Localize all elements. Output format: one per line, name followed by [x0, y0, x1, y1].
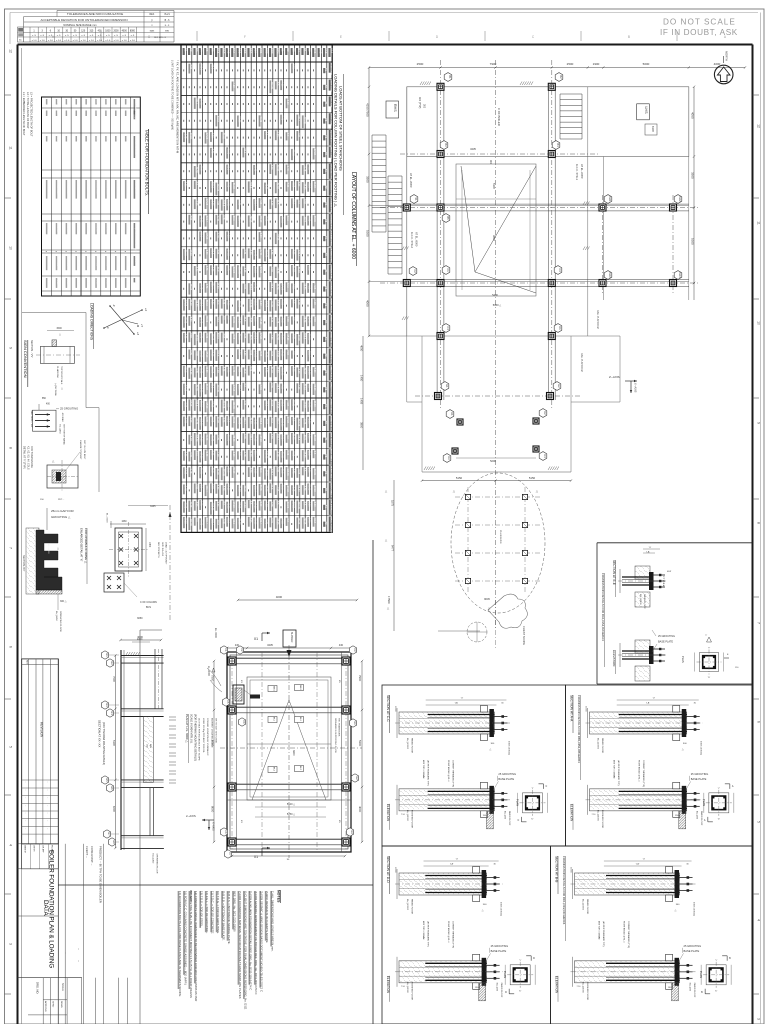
svg-text:-98.05: -98.05	[313, 215, 316, 222]
svg-text:SPACING 'X' x 'Y': SPACING 'X' x 'Y'	[134, 180, 137, 197]
svg-text:D1: D1	[302, 48, 306, 52]
svg-text:-25.30: -25.30	[313, 384, 316, 391]
svg-text:EL.+6000: EL.+6000	[207, 666, 209, 677]
svg-text:VERT. LOAD: VERT. LOAD	[329, 147, 332, 160]
svg-text:-3.06: -3.06	[270, 517, 273, 523]
RHS label	[386, 101, 399, 118]
svg-text:ENLARGED DETAIL AT 'X': ENLARGED DETAIL AT 'X'	[80, 528, 84, 562]
svg-text:-25.30: -25.30	[275, 182, 278, 189]
svg-text:5150: 5150	[456, 476, 463, 480]
svg-text:600: 600	[86, 111, 89, 116]
svg-text:-98.05: -98.05	[292, 433, 295, 440]
svg-text:-13.6: -13.6	[292, 198, 295, 204]
svg-text:7500: 7500	[112, 676, 116, 682]
svg-text:5400: 5400	[492, 293, 498, 297]
svg-text:DEAD LOAD: DEAD LOAD	[329, 63, 332, 76]
svg-text:PROJECT: --: PROJECT: --	[189, 890, 192, 905]
svg-text:2500: 2500	[417, 62, 424, 66]
svg-text:-213.5: -213.5	[200, 400, 203, 407]
svg-text:-13.6: -13.6	[308, 265, 311, 271]
middle detail top dims	[214, 595, 358, 649]
svg-text:300x450: 300x450	[96, 223, 98, 233]
svg-text:-25.30: -25.30	[211, 333, 214, 340]
svg-text:4050: 4050	[691, 112, 695, 119]
svg-text:+1.30: +1.30	[243, 349, 246, 356]
svg-text:-7.80: -7.80	[286, 316, 289, 322]
svg-text:EL(-)400: EL(-)400	[503, 811, 505, 820]
svg-text:G1: G1	[353, 721, 357, 725]
svg-text:E: E	[340, 35, 342, 39]
svg-text:C1: C1	[281, 48, 285, 52]
svg-text:+17.30: +17.30	[275, 233, 278, 241]
svg-text:4000: 4000	[276, 595, 283, 599]
svg-text:-17.30: -17.30	[184, 517, 187, 524]
svg-text:-213.5: -213.5	[254, 332, 257, 339]
svg-text:-17.30: -17.30	[205, 351, 208, 358]
svg-text:-98.05: -98.05	[313, 468, 316, 475]
svg-text:-13.6: -13.6	[243, 148, 246, 154]
svg-text:'LA': 'LA'	[636, 863, 640, 866]
svg-text:-9.0: -9.0	[200, 484, 203, 489]
svg-text:AT EL.-6000: AT EL.-6000	[580, 164, 584, 179]
svg-text:1000: 1000	[105, 30, 111, 32]
svg-text:BC4: BC4	[275, 48, 279, 54]
svg-text:+4.30: +4.30	[265, 501, 268, 508]
svg-text:+55.2: +55.2	[270, 282, 273, 289]
svg-text:-3.06: -3.06	[265, 216, 268, 222]
svg-text:500 x 650: 500 x 650	[86, 256, 88, 267]
svg-text:-8.90: -8.90	[308, 433, 311, 439]
svg-text:500 x 650: 500 x 650	[56, 256, 58, 267]
svg-text:1450: 1450	[148, 542, 150, 548]
svg-text:NOTES: NOTES	[277, 890, 281, 903]
oil cooler bracket	[233, 685, 260, 704]
svg-text:-136.4: -136.4	[254, 485, 257, 492]
svg-text:-2.05: -2.05	[221, 366, 224, 372]
svg-text:-98.05: -98.05	[232, 416, 235, 423]
svg-text:+4.30: +4.30	[232, 82, 235, 89]
svg-text:BASE PLATE: BASE PLATE	[491, 949, 507, 953]
svg-text:-9.0: -9.0	[286, 132, 289, 137]
do not scale note	[660, 18, 738, 38]
svg-text:-13.6: -13.6	[216, 316, 219, 322]
svg-text:-13.6: -13.6	[265, 400, 268, 406]
svg-text:+112.05: +112.05	[248, 299, 251, 308]
boiler funnel outline	[456, 164, 536, 296]
svg-text:-25.30: -25.30	[200, 350, 203, 357]
svg-text:EL(-)10000: EL(-)10000	[597, 810, 599, 822]
svg-text:BKS: BKS	[149, 744, 151, 749]
svg-text:+17.30: +17.30	[265, 300, 268, 308]
svg-text:20000: 20000	[394, 867, 396, 873]
left dim chain lower	[385, 480, 395, 631]
svg-text:+55.2: +55.2	[281, 317, 284, 324]
svg-text:D: D	[533, 957, 535, 960]
svg-text:-98.05: -98.05	[227, 434, 230, 441]
svg-text:ELEV: ELEV	[134, 278, 136, 284]
svg-text:-15.20: -15.20	[254, 266, 257, 273]
svg-text:8000: 8000	[130, 30, 136, 32]
svg-text:REVISION: REVISION	[40, 722, 44, 738]
svg-text:+4.30: +4.30	[297, 131, 300, 138]
svg-text:B1: B1	[448, 75, 452, 79]
svg-text:PAVED FLOOR: PAVED FLOOR	[643, 594, 646, 609]
svg-text:-0.75: -0.75	[302, 485, 305, 491]
svg-text:D1: D1	[558, 326, 562, 330]
svg-text:+112.05: +112.05	[211, 502, 214, 511]
svg-text:+4.30: +4.30	[216, 199, 219, 206]
svg-text:-13.6: -13.6	[308, 450, 311, 456]
svg-text:H5: H5	[105, 778, 109, 782]
svg-text:( UNIT LOAD ON FOOTING TO BE C: ( UNIT LOAD ON FOOTING TO BE COMBINED --…	[171, 60, 174, 130]
svg-text:-213.5: -213.5	[205, 299, 208, 306]
svg-text:EL(-)10000: EL(-)10000	[597, 738, 599, 750]
svg-text:EL(-)1450: EL(-)1450	[55, 611, 57, 622]
svg-text:-7.80: -7.80	[308, 164, 311, 170]
svg-text:SECTION - 'ZZ': SECTION - 'ZZ'	[30, 410, 33, 428]
svg-text:-8.90: -8.90	[292, 451, 295, 457]
svg-text:-8.90: -8.90	[211, 132, 214, 138]
svg-text:-8.90: -8.90	[184, 451, 187, 457]
svg-text:-213.5: -213.5	[292, 149, 295, 156]
svg-text:-136.4: -136.4	[205, 485, 208, 492]
svg-text:-9.0: -9.0	[194, 517, 197, 522]
plan at lvl title + notes	[185, 714, 217, 763]
svg-text:-0.75: -0.75	[243, 249, 246, 255]
svg-text:-7.80: -7.80	[238, 367, 241, 373]
svg-text:-213.5: -213.5	[248, 181, 251, 188]
svg-text:+112.05: +112.05	[200, 417, 203, 426]
svg-text:-7.80: -7.80	[313, 367, 316, 373]
svg-text:+112.05: +112.05	[281, 367, 284, 376]
svg-text:BASE PLATE: BASE PLATE	[691, 777, 707, 781]
svg-text:GROUTING △: GROUTING △	[51, 515, 71, 519]
svg-text:BASE PLATE: BASE PLATE	[684, 949, 700, 953]
svg-text:± 1.0: ± 1.0	[105, 40, 111, 42]
svg-text:-17.30: -17.30	[216, 282, 219, 289]
svg-text:-0.75: -0.75	[265, 519, 268, 525]
svg-text:5300: 5300	[358, 740, 362, 747]
sign convention sketch YY	[36, 327, 80, 397]
svg-text:1455: 1455	[360, 398, 364, 405]
svg-text:+55.2: +55.2	[211, 467, 214, 474]
svg-text:-15.20: -15.20	[286, 501, 289, 508]
svg-text:3: 3	[9, 943, 13, 945]
svg-text:EL(-)10000: EL(-)10000	[582, 982, 584, 994]
svg-text:9) B.O.B. = BOTTOM OF BASE PLA: 9) B.O.B. = BOTTOM OF BASE PLATE.	[221, 891, 225, 941]
svg-text:+6.48: +6.48	[184, 417, 187, 424]
svg-text:-3.06: -3.06	[308, 467, 311, 473]
svg-text:PAVED FLOOR: PAVED FLOOR	[693, 983, 696, 998]
svg-text:-25.30: -25.30	[270, 366, 273, 373]
svg-text:4: 4	[757, 919, 761, 921]
svg-text:B5: B5	[205, 48, 209, 52]
svg-text:-17.30: -17.30	[189, 399, 192, 406]
svg-text:RAIL PLATFORM: RAIL PLATFORM	[580, 353, 583, 372]
svg-text:--: --	[77, 960, 81, 962]
svg-text:500: 500	[116, 99, 119, 104]
svg-text:-98.05: -98.05	[227, 199, 230, 206]
svg-text:DO NOT SCALE: DO NOT SCALE	[663, 18, 736, 27]
svg-text:± 1.0: ± 1.0	[114, 40, 120, 42]
middle detail bottom dims	[231, 803, 346, 861]
svg-text:300 △: 300 △	[60, 600, 67, 603]
svg-text:-7.80: -7.80	[313, 316, 316, 322]
svg-text:20000: 20000	[570, 867, 572, 873]
svg-text:-25.30: -25.30	[248, 450, 251, 457]
svg-text:+1.30: +1.30	[189, 435, 192, 442]
svg-text:+55.2: +55.2	[275, 383, 278, 390]
svg-text:1250x1250x50: 1250x1250x50	[106, 180, 108, 195]
svg-text:H6: H6	[110, 786, 114, 790]
svg-text:-98.05: -98.05	[265, 485, 268, 492]
svg-text:-2.05: -2.05	[238, 200, 241, 206]
svg-text:E1: E1	[445, 384, 449, 388]
svg-text:X--AXIS: X--AXIS	[634, 383, 638, 393]
svg-text:-8.90: -8.90	[302, 198, 305, 204]
layout plan title	[350, 172, 357, 266]
svg-text:PAVED FLOOR: PAVED FLOOR	[586, 899, 589, 915]
svg-text:L3 = PROJECTED LENGTH OF BOLT: L3 = PROJECTED LENGTH OF BOLT	[30, 92, 34, 137]
svg-text:500: 500	[96, 99, 99, 104]
svg-text:9045: 9045	[484, 597, 490, 601]
plan inner labels	[409, 97, 599, 372]
svg-text:DRY POCKETS: DRY POCKETS	[157, 542, 159, 558]
svg-text:+ 6.30: + 6.30	[86, 278, 88, 285]
svg-text:H1: H1	[105, 653, 109, 657]
svg-text:SIZE 150×150: SIZE 150×150	[161, 542, 164, 557]
svg-text:-7.80: -7.80	[270, 266, 273, 272]
svg-text:D: D	[505, 991, 507, 994]
svg-text:-25.30: -25.30	[232, 182, 235, 189]
svg-text:-7.80: -7.80	[189, 64, 192, 70]
svg-text:PLAN: PLAN	[503, 971, 507, 978]
svg-text:25 GROUTING: 25 GROUTING	[658, 635, 675, 638]
plan outline	[369, 87, 689, 472]
sign convention sketch ZZ	[30, 398, 78, 445]
svg-text:500: 500	[76, 99, 79, 104]
svg-text:600: 600	[106, 111, 109, 116]
svg-text:BB1: BB1	[238, 48, 242, 54]
svg-text:CLIENT: --: CLIENT: --	[85, 846, 88, 858]
svg-text:+4.30: +4.30	[270, 333, 273, 340]
svg-text:EL(-)10000: EL(-)10000	[639, 594, 641, 605]
svg-text:± 1.0: ± 1.0	[40, 40, 46, 42]
svg-text:-7.80: -7.80	[189, 332, 192, 338]
svg-text:-98.05: -98.05	[232, 435, 235, 442]
svg-text:F: F	[244, 35, 246, 39]
svg-text:DA1: DA1	[608, 196, 612, 202]
svg-text:-98.05: -98.05	[308, 333, 311, 340]
svg-text:25 GROUTING: 25 GROUTING	[691, 772, 709, 776]
svg-text:+55.2: +55.2	[270, 483, 273, 490]
svg-text:-2.05: -2.05	[248, 366, 251, 372]
svg-text:+1.30: +1.30	[281, 299, 284, 306]
svg-text:EL.+6000: EL.+6000	[106, 513, 108, 523]
svg-text:M20 TOR # 300MM: M20 TOR # 300MM	[422, 921, 424, 939]
svg-text:AT EL.-8000: AT EL.-8000	[409, 173, 413, 188]
svg-text:-8.90: -8.90	[313, 501, 316, 507]
svg-text:1250x1250x50: 1250x1250x50	[96, 180, 98, 195]
svg-text:-136.4: -136.4	[194, 98, 197, 105]
svg-text:B3: B3	[194, 48, 198, 52]
svg-text:+17.30: +17.30	[259, 317, 262, 325]
loading table title	[334, 74, 344, 215]
svg-text:(FOR THERMAX MOUNTING DETAILS): (FOR THERMAX MOUNTING DETAILS)	[102, 722, 105, 765]
svg-text:+55.2: +55.2	[281, 484, 284, 491]
svg-text:-45.05: -45.05	[254, 418, 257, 425]
svg-text:+Y: +Y	[140, 324, 144, 328]
svg-text:1250x1250x50: 1250x1250x50	[116, 180, 118, 195]
svg-text:EL(-)10000: EL(-)10000	[406, 982, 408, 994]
svg-text:-8.90: -8.90	[211, 483, 214, 489]
svg-text:MAX: MAX	[150, 29, 155, 32]
svg-text:-8.90: -8.90	[211, 417, 214, 423]
svg-text:+6.48: +6.48	[259, 249, 262, 256]
svg-text:+ 6.30: + 6.30	[96, 278, 98, 285]
svg-text:BK.2: BK.2	[299, 766, 301, 770]
svg-text:-136.4: -136.4	[254, 199, 257, 206]
svg-text:M36: M36	[66, 136, 69, 141]
svg-text:+X: +X	[144, 308, 148, 312]
svg-text:(AS PER STANDARD TYP): (AS PER STANDARD TYP)	[602, 921, 605, 947]
svg-text:3500: 3500	[366, 176, 370, 183]
svg-text:600: 600	[66, 111, 69, 116]
svg-text:20000: 20000	[394, 706, 396, 712]
svg-text:M36: M36	[116, 136, 119, 141]
svg-text:8: 8	[9, 447, 13, 449]
svg-text:EL(-)1450: EL(-)1450	[152, 854, 154, 865]
column footings grid	[403, 83, 676, 454]
svg-text:DA4: DA4	[678, 272, 682, 278]
svg-text:-213.5: -213.5	[184, 249, 187, 256]
svg-text:-17.30: -17.30	[189, 132, 192, 139]
svg-text:-2.05: -2.05	[221, 518, 224, 524]
svg-text:-9.0: -9.0	[221, 316, 224, 321]
svg-text:-8.90: -8.90	[292, 333, 295, 339]
svg-text:-15.20: -15.20	[313, 400, 316, 407]
svg-text:FOR HYDRAULIC DRIVE △: FOR HYDRAULIC DRIVE △	[84, 528, 88, 564]
svg-text:+112.05: +112.05	[286, 467, 289, 476]
svg-text:+6.48: +6.48	[275, 317, 278, 324]
svg-text:-9.0: -9.0	[265, 131, 268, 136]
svg-text:PLAN: PLAN	[515, 799, 519, 806]
svg-text:-25.30: -25.30	[238, 300, 241, 307]
svg-text:-136.4: -136.4	[248, 434, 251, 441]
svg-text:H8: H8	[112, 840, 116, 844]
svg-text:PULVERIZER: PULVERIZER	[499, 530, 501, 544]
svg-text:-136.4: -136.4	[297, 249, 300, 256]
svg-text:-25.30: -25.30	[189, 283, 192, 290]
svg-text:DA3: DA3	[608, 272, 612, 278]
svg-text:+17.30: +17.30	[232, 500, 235, 508]
detail panel section C-C	[382, 685, 566, 846]
svg-text:54B.1: 54B.1	[273, 686, 275, 691]
svg-text:-0.75: -0.75	[211, 148, 214, 154]
svg-text:-213.5: -213.5	[248, 283, 251, 290]
svg-text:EL(-)10000: EL(-)10000	[406, 738, 408, 750]
svg-text:9477: 9477	[391, 545, 395, 551]
svg-text:5050 △: 5050 △	[493, 303, 502, 307]
svg-text:CL ARROW: CL ARROW	[56, 366, 59, 379]
svg-text:+1.30: +1.30	[248, 248, 251, 255]
svg-text:2500: 2500	[567, 62, 574, 66]
LHS label	[637, 104, 650, 120]
svg-text:+55.2: +55.2	[211, 248, 214, 255]
svg-text:9: 9	[9, 347, 13, 349]
svg-text:-98.05: -98.05	[292, 399, 295, 406]
svg-text:2--AXIS: 2--AXIS	[186, 814, 196, 818]
svg-text:'L’T' (D.B.A.): 'L’T' (D.B.A.)	[662, 576, 665, 588]
svg-text:-25.30: -25.30	[194, 384, 197, 391]
svg-text:-3.06: -3.06	[238, 349, 241, 355]
svg-text:R.C.C. STR-1: R.C.C. STR-1	[575, 164, 579, 181]
svg-text:BB2: BB2	[243, 48, 247, 54]
svg-text:-98.05: -98.05	[184, 316, 187, 323]
svg-text:5200: 5200	[490, 459, 496, 463]
svg-text:-2.05: -2.05	[221, 299, 224, 305]
svg-text:500: 500	[66, 99, 69, 104]
drawing title text	[42, 850, 55, 968]
svg-text:--: --	[64, 952, 68, 954]
svg-text:+6.48: +6.48	[232, 366, 235, 373]
svg-text:-7.80: -7.80	[248, 317, 251, 323]
svg-text:BK.1: BK.1	[273, 717, 275, 721]
svg-text:-7.80: -7.80	[292, 283, 295, 289]
svg-text:-7.80: -7.80	[216, 249, 219, 255]
svg-text:+6.48: +6.48	[189, 467, 192, 474]
svg-text:-213.5: -213.5	[200, 63, 203, 70]
svg-text:8: 8	[757, 522, 761, 524]
svg-text:-98.05: -98.05	[259, 484, 262, 491]
svg-text:-8.90: -8.90	[248, 467, 251, 473]
svg-text:B3: B3	[444, 143, 448, 147]
X1 section marker top	[254, 632, 270, 641]
svg-text:+1.30: +1.30	[297, 468, 300, 475]
svg-text:-136.4: -136.4	[275, 417, 278, 424]
svg-text:REV: REV	[26, 660, 28, 665]
svg-text:+17.30: +17.30	[205, 401, 208, 409]
svg-text:-17.30: -17.30	[184, 299, 187, 306]
svg-text:-9.0: -9.0	[292, 316, 295, 321]
svg-text:E2: E2	[557, 384, 561, 388]
svg-text:-17.30: -17.30	[286, 416, 289, 423]
svg-text:K3: K3	[447, 456, 451, 460]
svg-text:AA4: AA4	[329, 48, 333, 54]
svg-text:-136.4: -136.4	[211, 518, 214, 525]
svg-text:PKT. ←: PKT. ←	[58, 499, 65, 501]
svg-text:1250x1250x50: 1250x1250x50	[76, 180, 78, 195]
svg-text:RIGHT ANGLE @ KL 4: RIGHT ANGLE @ KL 4	[638, 760, 641, 782]
svg-text:C: C	[517, 819, 519, 822]
svg-text:8000: 8000	[211, 806, 215, 813]
svg-text:EL(-)400: EL(-)400	[496, 983, 498, 992]
svg-text:LOADING DETAILS FOR COLUMN: LOADING DETAILS FOR COLUMN FOOTING ( LOA…	[334, 74, 339, 207]
svg-text:+1.30: +1.30	[270, 199, 273, 206]
svg-text:-9.0: -9.0	[286, 435, 289, 440]
svg-text:+17.30: +17.30	[200, 434, 203, 442]
svg-text:PAVED FLOOR: PAVED FLOOR	[411, 899, 414, 915]
svg-text:25mm GAP FOR: 25mm GAP FOR	[51, 509, 74, 513]
svg-text:K1: K1	[450, 412, 454, 416]
svg-text:'LA': 'LA'	[646, 702, 650, 705]
svg-text:-213.5: -213.5	[211, 181, 214, 188]
svg-text:11: 11	[757, 221, 761, 225]
svg-text:+112.05: +112.05	[221, 467, 224, 476]
svg-text:6300: 6300	[651, 126, 655, 132]
svg-text:-17.30: -17.30	[238, 501, 241, 508]
svg-text:-15.20: -15.20	[270, 399, 273, 406]
